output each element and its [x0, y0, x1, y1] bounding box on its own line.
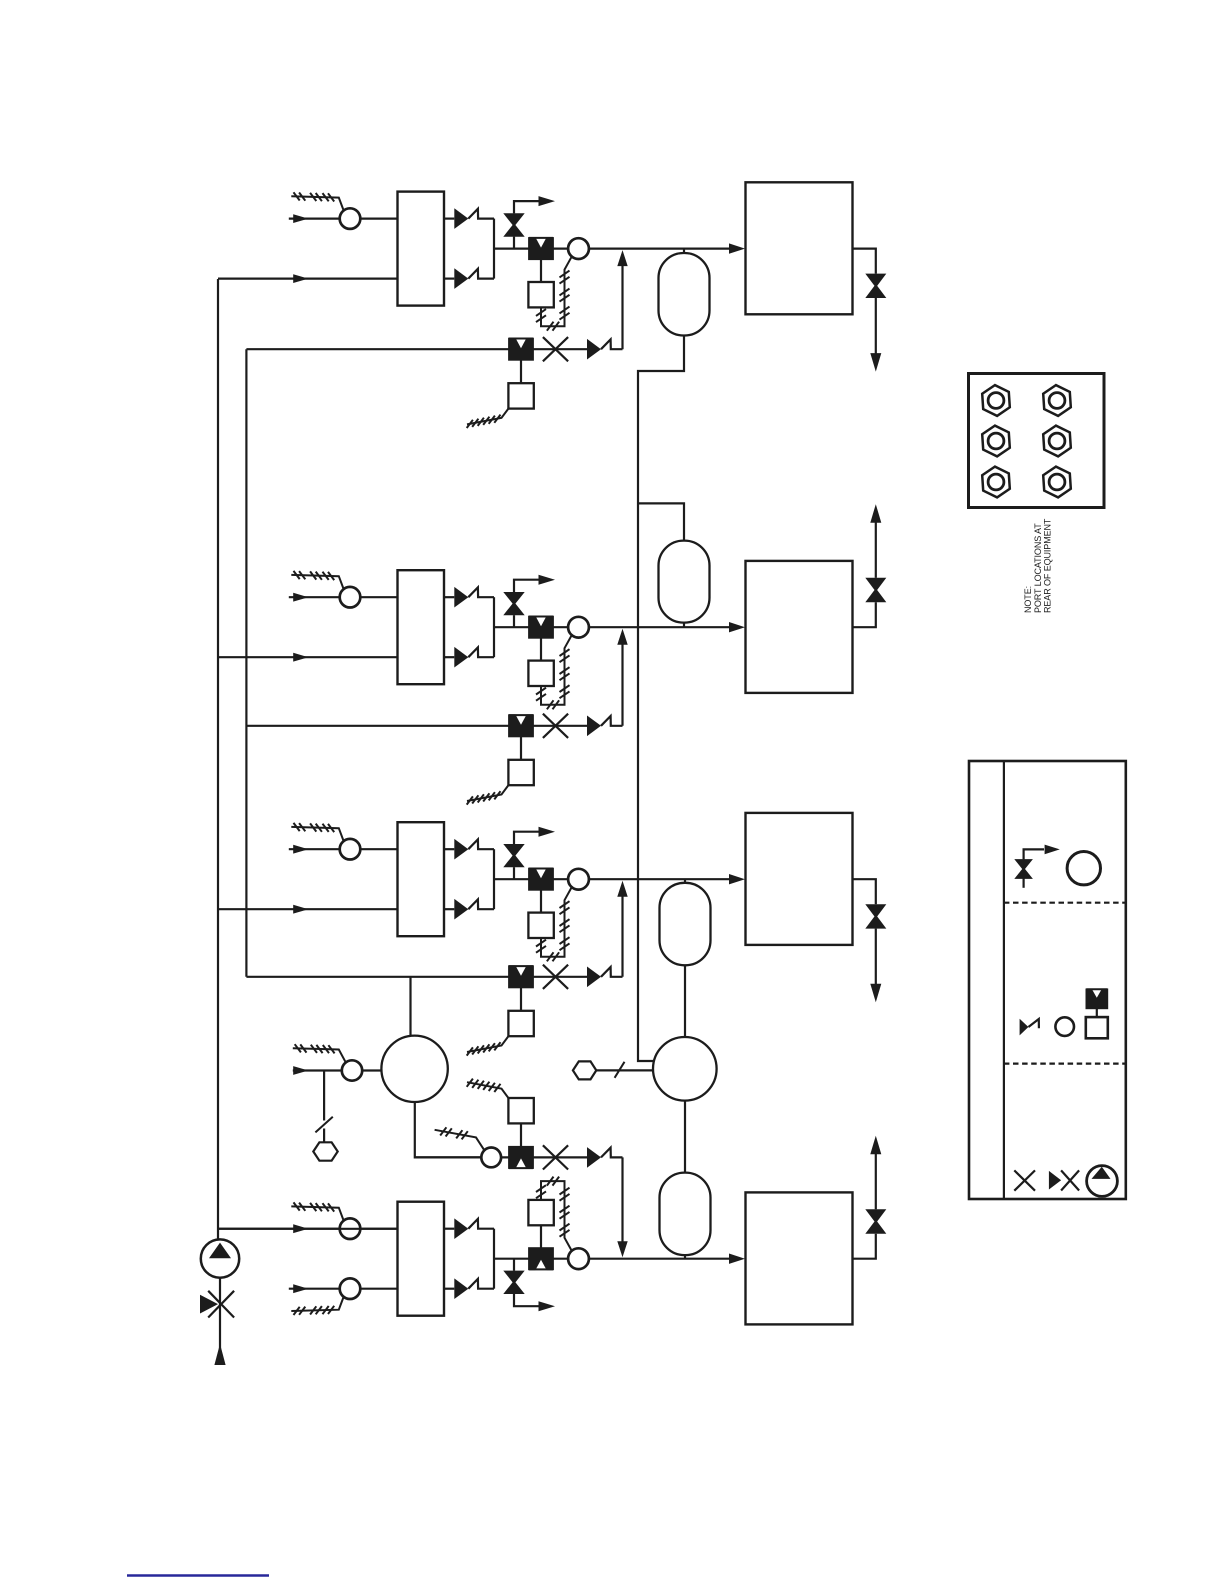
flexible hose (hatched) from pilot box SV-1b	[467, 409, 508, 425]
flexible hose (hatched) to unit 4 bottom gauge	[291, 1297, 343, 1311]
legend small circle symbol	[1055, 1017, 1074, 1036]
flow arrow into unit 3 second inlet	[293, 905, 308, 914]
wire: P1 inlet line	[293, 1069, 382, 1071]
wire: unit 4 gauge-inlet line	[218, 1228, 398, 1230]
wire: unit 2 second inlet line	[218, 656, 398, 658]
wire: unit 3 check-valve outlet join	[493, 849, 495, 909]
pilot actuator box for SV-3b	[520, 988, 522, 1011]
check valve CV-1a (manifold top outlet)	[444, 218, 454, 220]
hexagon fitting H1	[313, 1142, 337, 1160]
wire: unit 2 check-valve outlet join	[493, 597, 495, 657]
legend pump symbol	[1087, 1166, 1118, 1197]
flow arrow into unit 2 second inlet	[293, 653, 308, 662]
port location box (rear of equipment)	[969, 374, 1105, 508]
wire: unit 4 bypass riser	[621, 1157, 623, 1242]
capillary line (hatched) unit 3	[541, 887, 572, 956]
solenoid valve SV-2m (main line)	[529, 617, 553, 638]
wire: AC2 to main line stub	[683, 623, 685, 628]
drain arrow unit 2	[875, 515, 877, 578]
wire: unit 3 gauge-inlet line	[289, 848, 398, 850]
capped port (plug) on bypass unit 1	[543, 337, 568, 361]
wire: unit 1 gauge-inlet line	[289, 218, 398, 220]
check valve CV-3c (bypass)	[587, 967, 601, 988]
tick on H2 line	[615, 1062, 625, 1078]
pump P3 (circulating pump)	[201, 1239, 239, 1277]
flow arrow into unit 1 top inlet	[293, 214, 308, 223]
pressure gauge PI-3a	[340, 839, 361, 860]
drain valve DV-4	[865, 1209, 886, 1223]
pressure gauge PI-4c (main line)	[568, 1248, 589, 1269]
wire: bypass line unit 4 segment through plug	[533, 1156, 587, 1158]
check valve with plug below pump P3	[200, 1295, 218, 1314]
wire: unit 3 second inlet line	[218, 908, 398, 910]
vent arrow from RV-1	[539, 196, 556, 206]
note text: PORT LOCATIONS AT REAR OF EQUIPMENT	[1023, 518, 1053, 613]
pressure gauge PI-2a	[340, 587, 361, 608]
accumulator AC3	[684, 879, 686, 883]
wire: drop to test hexagon H1	[323, 1071, 325, 1121]
wire: unit 3 bypass riser	[621, 896, 623, 977]
flexible hose (hatched) to P1 gauge	[293, 1048, 346, 1062]
hex port nut N1	[982, 385, 1010, 416]
check valve CV-3a (manifold top outlet)	[444, 848, 454, 850]
legend plug symbol	[1014, 1170, 1035, 1190]
flow arrow into P1	[293, 1066, 308, 1075]
manifold block M2	[398, 570, 445, 684]
accumulator AC2	[659, 541, 710, 623]
legend check valve symbol	[1020, 1019, 1029, 1036]
wire: unit 2 bypass riser	[621, 644, 623, 726]
wire: unit 3 main delivery line	[494, 878, 730, 880]
wire: unit 1 bypass line	[246, 348, 509, 350]
flexible hose (hatched) to unit 2 top gauge	[291, 575, 343, 589]
round unit P2 (motor)	[653, 1037, 717, 1101]
solenoid valve SV-3b (bypass)	[509, 966, 533, 987]
capillary line (hatched) unit 4	[541, 1181, 572, 1250]
flow arrow bypass riser into main line unit 1	[617, 250, 627, 266]
flexible hose (hatched) from pilot box SV-4b	[467, 1082, 508, 1098]
hex port nut N3	[982, 426, 1010, 457]
tick on H1 drop line	[315, 1117, 332, 1133]
wire: supply trunk A vertical (pump discharge header)	[217, 279, 219, 1240]
wire: unit 1 main delivery line	[494, 248, 730, 250]
accumulator AC1	[683, 249, 685, 253]
wire: AC4 to main line stub	[684, 1255, 686, 1259]
pilot actuator box for SV-2m	[540, 638, 542, 661]
wire: unit 4 main delivery line	[494, 1258, 730, 1260]
flow arrow into equipment E3	[729, 874, 745, 884]
vent arrow from RV-4	[539, 1301, 556, 1311]
solenoid valve SV-3m (main line)	[529, 869, 553, 890]
footer link underline (blue)	[127, 1574, 269, 1576]
legend divider vertical	[1003, 761, 1005, 1199]
equipment enclosure E3	[746, 813, 853, 945]
wire: unit 3 drain line	[853, 879, 876, 904]
solenoid valve SV-1m (main line)	[529, 238, 553, 259]
pilot actuator box for SV-2b	[520, 737, 522, 760]
legend check-with-plug symbol	[1049, 1171, 1061, 1190]
legend solenoid valve symbol	[1086, 989, 1107, 1008]
drain valve DV-1	[865, 274, 886, 288]
wire: unit 4 second inlet line	[289, 1288, 398, 1290]
wire: unit 4 check-valve outlet join	[493, 1229, 495, 1289]
relief valve RV-3	[513, 867, 515, 879]
wire: bypass line unit 1 segment through plug	[533, 348, 587, 350]
wire: unit 2 drain line	[853, 602, 876, 627]
check valve CV-2b (manifold bottom outlet)	[444, 656, 454, 658]
wire: unit 4 bypass line	[415, 1156, 509, 1158]
wire: unit 4 drain line	[853, 1234, 876, 1259]
capped port (plug) on bypass unit 2	[543, 714, 568, 738]
wire: unit 1 bypass riser	[621, 265, 623, 349]
wire: accumulator AC2 feed branch	[638, 503, 684, 540]
wire: unit 3 bypass line	[246, 976, 509, 978]
flexible hose (hatched) from pilot box SV-3b	[467, 1036, 508, 1052]
legend gauge symbol	[1067, 852, 1100, 885]
equipment enclosure E1	[746, 182, 853, 314]
pilot actuator box for SV-1b	[520, 360, 522, 383]
wire: unit 2 gauge-inlet line	[289, 596, 398, 598]
capped port (plug) on bypass unit 3	[543, 965, 568, 989]
pressure gauge PI-P1	[342, 1060, 362, 1080]
wire: accumulator header trunk C vertical	[638, 335, 684, 1061]
legend dashed divider 1	[1004, 902, 1126, 904]
svg-text:NOTE:: NOTE:	[1023, 586, 1033, 613]
wire: pump P3 outlet down	[219, 1278, 221, 1352]
flow arrow into unit 1 second inlet	[293, 274, 308, 283]
wire: unit 2 main delivery line	[494, 626, 730, 628]
wire: bypass trunk B vertical	[245, 349, 247, 977]
pilot actuator box for SV-4b	[520, 1123, 522, 1146]
pilot actuator box for SV-3m	[540, 890, 542, 913]
pressure gauge PI-4d (bypass)	[481, 1148, 501, 1168]
flexible hose (hatched) to unit 1 top gauge	[291, 196, 343, 210]
pressure gauge PI-4a	[340, 1218, 361, 1239]
capped port (plug) on bypass unit 4	[543, 1145, 568, 1169]
flexible hose (hatched) from pilot box SV-2b	[467, 785, 508, 801]
flow arrow bypass riser into main line unit 4	[617, 1241, 627, 1257]
pressure gauge PI-3c (main line)	[568, 869, 589, 890]
wire: unit 2 bypass line	[246, 725, 509, 727]
flexible hose (hatched) to bypass gauge unit 4	[435, 1130, 485, 1150]
manifold block M4	[398, 1202, 445, 1316]
vent arrow from RV-3	[539, 827, 556, 837]
pilot actuator box for SV-4m	[540, 1225, 542, 1248]
wire: pump suction/discharge column	[218, 1228, 398, 1230]
flow arrow bypass riser into main line unit 2	[617, 629, 627, 645]
flow arrow into unit 2 top inlet	[293, 593, 308, 602]
hex port nut N2	[1043, 385, 1071, 416]
solenoid valve SV-4m (main line)	[529, 1248, 553, 1269]
wire: P1 outlet down to unit-4 bypass	[415, 1102, 482, 1157]
check valve CV-2c (bypass)	[587, 716, 601, 737]
equipment enclosure E4	[746, 1192, 853, 1324]
solenoid valve SV-2b (bypass)	[509, 715, 533, 736]
svg-text:PORT LOCATIONS AT: PORT LOCATIONS AT	[1033, 523, 1043, 613]
manifold block M1	[398, 192, 445, 306]
flow arrow into unit 4 second inlet	[293, 1284, 308, 1293]
flexible hose (hatched) to unit 3 top gauge	[291, 827, 343, 841]
pressure gauge PI-4b	[340, 1278, 361, 1299]
solenoid valve SV-1b (bypass)	[509, 339, 533, 360]
check valve CV-4b (manifold bottom outlet)	[444, 1288, 454, 1290]
pressure gauge PI-2c (main line)	[568, 617, 589, 638]
drain valve DV-3	[865, 904, 886, 918]
wire: H2 to round unit P2	[596, 1069, 653, 1071]
drain arrow unit 4	[875, 1147, 877, 1210]
flow arrow into unit 3 top inlet	[293, 845, 308, 854]
manifold block M3	[398, 822, 445, 936]
hex port nut N4	[1043, 426, 1071, 457]
accumulator AC4	[684, 1101, 686, 1173]
relief valve RV-4	[513, 1259, 515, 1271]
hexagon fitting H2	[573, 1061, 596, 1079]
check valve CV-4c (bypass)	[587, 1147, 601, 1168]
wire: branch from unit-3 bypass down to round unit P1	[409, 977, 411, 1036]
wire: bypass line unit 3 segment through plug	[533, 976, 587, 978]
legend dashed divider 2	[1004, 1062, 1126, 1064]
legend relief valve symbol	[1022, 859, 1024, 888]
drain arrow unit 1	[875, 298, 877, 361]
vent arrow from RV-2	[539, 575, 556, 585]
drain arrow unit 3	[875, 929, 877, 992]
flow arrow into equipment E4	[729, 1254, 745, 1264]
flow arrow into equipment E1	[729, 243, 745, 253]
relief valve RV-1	[513, 237, 515, 249]
check valve CV-2a (manifold top outlet)	[444, 596, 454, 598]
wire: bypass line unit 2 segment through plug	[533, 725, 587, 727]
wire: AC3 down to pump/motor P2	[684, 965, 686, 1037]
flow arrow into unit 4 top inlet	[293, 1224, 308, 1233]
check valve CV-3b (manifold bottom outlet)	[444, 908, 454, 910]
svg-text:REAR OF EQUIPMENT: REAR OF EQUIPMENT	[1043, 518, 1053, 613]
flow arrow into equipment E2	[729, 622, 745, 632]
check valve CV-4a (manifold top outlet)	[444, 1228, 454, 1230]
drain valve DV-2	[865, 578, 886, 592]
check valve CV-1c (bypass)	[587, 339, 601, 360]
solenoid valve SV-4b (bypass)	[509, 1147, 533, 1168]
flexible hose (hatched) to unit 4 top gauge	[291, 1206, 343, 1220]
pump P3 rotor triangle	[209, 1243, 231, 1259]
relief valve RV-2	[513, 615, 515, 627]
wire: unit 1 drain line	[853, 249, 876, 274]
check valve CV-1b (manifold bottom outlet)	[444, 278, 454, 280]
legend box	[969, 761, 1126, 1199]
hex port nut N6	[1043, 467, 1071, 498]
pressure gauge PI-1a	[340, 208, 361, 229]
equipment enclosure E2	[746, 561, 853, 693]
hex port nut N5	[982, 467, 1010, 498]
capillary line (hatched) unit 1	[541, 257, 572, 326]
flow arrow bypass riser into main line unit 3	[617, 881, 627, 897]
pilot actuator box for SV-1m	[540, 259, 542, 282]
pressure gauge PI-1c (main line)	[568, 238, 589, 259]
wire: unit 1 check-valve outlet join	[493, 219, 495, 279]
flow arrow on suction line	[214, 1344, 225, 1365]
capillary line (hatched) unit 2	[541, 635, 572, 704]
round unit P1 (motor)	[381, 1036, 447, 1102]
wire: unit 1 second inlet line	[218, 278, 398, 280]
